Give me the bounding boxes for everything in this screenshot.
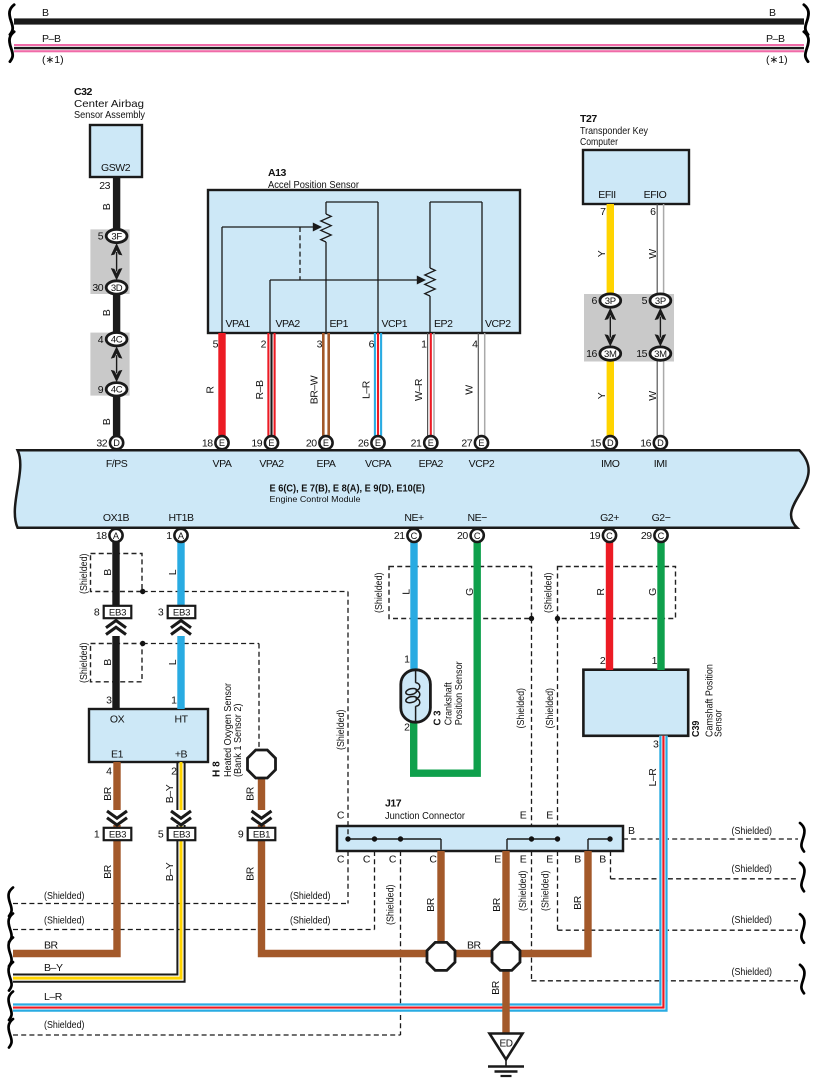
svg-text:EP1: EP1 <box>330 318 349 330</box>
svg-text:B: B <box>769 7 776 19</box>
svg-text:3M: 3M <box>654 349 667 360</box>
svg-text:2: 2 <box>404 722 410 734</box>
svg-text:+B: +B <box>175 749 188 761</box>
svg-text:(Shielded): (Shielded) <box>290 915 331 927</box>
svg-text:HT1B: HT1B <box>168 512 193 524</box>
svg-text:(∗1): (∗1) <box>42 54 64 66</box>
svg-text:NE−: NE− <box>468 512 488 524</box>
svg-text:IMO: IMO <box>601 458 620 470</box>
svg-text:1: 1 <box>652 655 658 667</box>
svg-text:GSW2: GSW2 <box>101 162 131 174</box>
svg-text:A: A <box>178 531 185 541</box>
svg-text:T27: T27 <box>580 113 597 125</box>
svg-text:3F: 3F <box>111 231 122 242</box>
svg-text:(Shielded): (Shielded) <box>385 885 397 926</box>
svg-text:19: 19 <box>589 530 600 542</box>
svg-text:NE+: NE+ <box>404 512 424 524</box>
svg-text:(Shielded): (Shielded) <box>540 871 552 912</box>
svg-text:C: C <box>606 531 613 541</box>
svg-text:16: 16 <box>640 437 651 449</box>
svg-text:8: 8 <box>94 607 100 619</box>
svg-text:4C: 4C <box>111 335 123 346</box>
svg-text:E: E <box>520 810 527 822</box>
svg-text:Computer: Computer <box>580 136 618 148</box>
svg-text:C: C <box>429 854 437 866</box>
svg-text:VPA2: VPA2 <box>259 458 284 470</box>
svg-text:15: 15 <box>636 348 647 360</box>
svg-text:E: E <box>546 854 553 866</box>
svg-text:BR: BR <box>491 897 503 912</box>
svg-text:E: E <box>219 438 225 448</box>
svg-text:BR: BR <box>490 980 502 995</box>
svg-text:E: E <box>268 438 274 448</box>
svg-text:4: 4 <box>472 339 478 351</box>
svg-text:W: W <box>647 249 659 259</box>
svg-text:B: B <box>628 825 635 837</box>
svg-text:C: C <box>389 854 397 866</box>
svg-text:4: 4 <box>106 766 112 778</box>
svg-text:B: B <box>102 659 114 666</box>
svg-text:6: 6 <box>369 339 375 351</box>
svg-text:J17: J17 <box>385 798 402 810</box>
svg-text:B–Y: B–Y <box>44 962 63 974</box>
svg-text:Engine Control Module: Engine Control Module <box>270 494 361 504</box>
svg-text:Accel Position Sensor: Accel Position Sensor <box>268 179 359 191</box>
svg-text:16: 16 <box>586 348 597 360</box>
svg-text:BR: BR <box>572 895 584 910</box>
svg-text:Position Sensor: Position Sensor <box>453 661 465 725</box>
svg-text:4: 4 <box>98 334 104 346</box>
svg-text:32: 32 <box>96 437 107 449</box>
svg-text:3: 3 <box>106 694 112 706</box>
svg-text:1: 1 <box>404 654 410 666</box>
svg-text:27: 27 <box>461 437 472 449</box>
svg-text:1: 1 <box>421 339 427 351</box>
svg-text:E: E <box>428 438 434 448</box>
svg-text:18: 18 <box>202 437 213 449</box>
svg-text:(Shielded): (Shielded) <box>543 573 555 614</box>
svg-text:(Shielded): (Shielded) <box>732 966 773 978</box>
svg-text:C: C <box>363 854 371 866</box>
svg-text:Junction Connector: Junction Connector <box>385 810 465 822</box>
svg-text:1: 1 <box>166 530 172 542</box>
svg-text:F/PS: F/PS <box>106 458 128 470</box>
svg-text:(Bank 1 Sensor 2): (Bank 1 Sensor 2) <box>232 704 244 778</box>
svg-text:L–R: L–R <box>44 991 63 1003</box>
svg-text:2: 2 <box>600 655 606 667</box>
svg-text:C: C <box>411 531 418 541</box>
svg-text:BR: BR <box>102 786 114 801</box>
svg-text:VPA1: VPA1 <box>226 318 251 330</box>
svg-text:EPA: EPA <box>317 458 336 470</box>
svg-text:6: 6 <box>592 295 598 307</box>
svg-text:(Shielded): (Shielded) <box>517 871 529 912</box>
svg-text:2: 2 <box>171 766 177 778</box>
svg-text:18: 18 <box>96 530 107 542</box>
svg-text:9: 9 <box>238 829 244 841</box>
svg-text:E: E <box>323 438 329 448</box>
svg-text:(Shielded): (Shielded) <box>44 915 85 927</box>
svg-text:W: W <box>464 385 476 395</box>
svg-text:(Shielded): (Shielded) <box>44 1019 85 1031</box>
svg-text:G: G <box>464 588 476 596</box>
svg-text:W: W <box>647 391 659 401</box>
svg-text:H 8: H 8 <box>211 761 223 777</box>
svg-text:G2−: G2− <box>652 512 671 524</box>
svg-text:W–R: W–R <box>413 378 425 401</box>
svg-text:23: 23 <box>99 180 110 192</box>
svg-text:L: L <box>401 589 413 595</box>
svg-text:5: 5 <box>98 231 104 243</box>
svg-text:E 6(C), E 7(B), E 8(A), E 9(D): E 6(C), E 7(B), E 8(A), E 9(D), E10(E) <box>270 483 426 494</box>
svg-text:Sensor Assembly: Sensor Assembly <box>74 109 146 121</box>
svg-text:3D: 3D <box>111 283 123 294</box>
svg-text:BR: BR <box>44 939 59 951</box>
svg-text:HT: HT <box>174 714 188 726</box>
svg-text:7: 7 <box>600 206 606 218</box>
svg-text:A: A <box>113 531 120 541</box>
svg-text:VPA: VPA <box>213 458 232 470</box>
svg-text:BR: BR <box>425 897 437 912</box>
svg-text:VPA2: VPA2 <box>276 318 301 330</box>
svg-text:EB3: EB3 <box>173 607 190 618</box>
svg-text:30: 30 <box>92 282 103 294</box>
svg-text:(Shielded): (Shielded) <box>732 914 773 926</box>
svg-text:EFIO: EFIO <box>644 189 667 201</box>
svg-text:2: 2 <box>261 339 267 351</box>
svg-text:A13: A13 <box>268 167 287 179</box>
svg-text:C32: C32 <box>74 86 93 98</box>
svg-text:VCP2: VCP2 <box>469 458 495 470</box>
svg-text:(Shielded): (Shielded) <box>544 688 556 729</box>
svg-text:L–R: L–R <box>361 380 373 399</box>
svg-text:9: 9 <box>98 384 104 396</box>
svg-text:1: 1 <box>171 694 177 706</box>
svg-text:EP2: EP2 <box>434 318 453 330</box>
svg-text:EB1: EB1 <box>253 829 270 840</box>
svg-text:B: B <box>102 569 114 576</box>
svg-text:(Shielded): (Shielded) <box>78 554 90 595</box>
svg-text:B: B <box>101 309 113 316</box>
svg-text:Y: Y <box>596 392 608 399</box>
svg-text:EFII: EFII <box>598 189 615 201</box>
svg-text:D: D <box>607 438 614 448</box>
svg-text:BR: BR <box>102 864 114 879</box>
svg-text:4C: 4C <box>111 385 123 396</box>
svg-text:D: D <box>113 438 120 448</box>
svg-text:EB3: EB3 <box>109 829 126 840</box>
svg-text:OX: OX <box>110 714 125 726</box>
svg-text:R: R <box>595 588 607 596</box>
svg-text:3: 3 <box>158 607 164 619</box>
svg-text:15: 15 <box>590 437 601 449</box>
svg-text:E: E <box>375 438 381 448</box>
svg-text:5: 5 <box>642 295 648 307</box>
svg-text:21: 21 <box>394 530 405 542</box>
svg-text:6: 6 <box>650 206 656 218</box>
svg-text:(∗1): (∗1) <box>766 54 788 66</box>
svg-text:R–B: R–B <box>254 380 266 400</box>
svg-text:E: E <box>494 854 501 866</box>
svg-text:EPA2: EPA2 <box>419 458 444 470</box>
svg-text:BR: BR <box>467 940 482 952</box>
svg-text:VCP2: VCP2 <box>485 318 511 330</box>
svg-text:C: C <box>337 854 345 866</box>
svg-text:IMI: IMI <box>654 458 667 470</box>
svg-text:E: E <box>546 810 553 822</box>
svg-text:3: 3 <box>317 339 323 351</box>
svg-text:R: R <box>205 386 217 394</box>
svg-text:B–Y: B–Y <box>164 784 176 803</box>
svg-text:P–B: P–B <box>42 33 61 45</box>
svg-text:VCPA: VCPA <box>365 458 391 470</box>
svg-text:B–Y: B–Y <box>164 862 176 881</box>
svg-text:20: 20 <box>306 437 317 449</box>
svg-text:L: L <box>167 569 179 575</box>
svg-text:L–R: L–R <box>647 768 659 787</box>
svg-text:E: E <box>520 854 527 866</box>
svg-text:(Shielded): (Shielded) <box>732 863 773 875</box>
svg-text:G2+: G2+ <box>600 512 619 524</box>
svg-text:Y: Y <box>596 250 608 257</box>
svg-text:OX1B: OX1B <box>103 512 130 524</box>
svg-text:3: 3 <box>653 739 659 751</box>
svg-text:BR–W: BR–W <box>309 375 321 404</box>
svg-text:G: G <box>647 588 659 596</box>
svg-text:19: 19 <box>251 437 262 449</box>
svg-text:5: 5 <box>213 339 219 351</box>
svg-text:C: C <box>337 810 345 822</box>
svg-text:Sensor: Sensor <box>713 709 725 737</box>
svg-text:B: B <box>599 854 606 866</box>
svg-text:5: 5 <box>158 829 164 841</box>
svg-text:D: D <box>657 438 664 448</box>
svg-text:EB3: EB3 <box>109 607 126 618</box>
svg-text:26: 26 <box>358 437 369 449</box>
svg-text:C39: C39 <box>690 720 702 737</box>
svg-text:BR: BR <box>245 786 257 801</box>
svg-text:(Shielded): (Shielded) <box>290 890 331 902</box>
svg-text:B: B <box>101 418 113 425</box>
svg-text:B: B <box>574 854 581 866</box>
svg-text:E: E <box>478 438 484 448</box>
svg-text:C: C <box>658 531 665 541</box>
svg-text:(Shielded): (Shielded) <box>515 688 527 729</box>
svg-text:(Shielded): (Shielded) <box>373 573 385 614</box>
svg-text:3P: 3P <box>655 296 666 307</box>
svg-text:20: 20 <box>457 530 468 542</box>
svg-text:(Shielded): (Shielded) <box>44 890 85 902</box>
svg-text:(Shielded): (Shielded) <box>732 825 773 837</box>
svg-text:B: B <box>42 7 49 19</box>
svg-text:C: C <box>474 531 481 541</box>
svg-text:29: 29 <box>641 530 652 542</box>
svg-text:3M: 3M <box>604 349 617 360</box>
svg-text:E1: E1 <box>111 749 124 761</box>
svg-text:1: 1 <box>94 829 100 841</box>
svg-text:3P: 3P <box>605 296 616 307</box>
svg-text:(Shielded): (Shielded) <box>78 643 90 684</box>
svg-text:VCP1: VCP1 <box>382 318 408 330</box>
svg-text:21: 21 <box>411 437 422 449</box>
svg-text:L: L <box>167 659 179 665</box>
svg-text:BR: BR <box>245 866 257 881</box>
svg-text:B: B <box>101 203 113 210</box>
svg-text:ED: ED <box>500 1039 513 1050</box>
svg-text:(Shielded): (Shielded) <box>335 710 347 751</box>
svg-text:P–B: P–B <box>766 33 785 45</box>
svg-text:EB3: EB3 <box>173 829 190 840</box>
